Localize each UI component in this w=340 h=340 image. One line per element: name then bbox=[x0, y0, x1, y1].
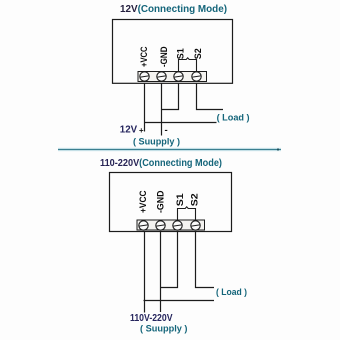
svg-text:+VCC: +VCC bbox=[138, 190, 148, 213]
svg-text:( Suupply ): ( Suupply ) bbox=[133, 136, 180, 146]
svg-text:12V: 12V bbox=[120, 125, 137, 136]
svg-text:-GND: -GND bbox=[156, 190, 166, 213]
svg-text:S1: S1 bbox=[176, 48, 186, 59]
svg-text:S1: S1 bbox=[175, 193, 185, 206]
svg-text:-GND: -GND bbox=[159, 46, 169, 67]
svg-text:12V(Connecting Mode): 12V(Connecting Mode) bbox=[120, 4, 227, 15]
svg-text:+: + bbox=[139, 126, 144, 135]
svg-text:( Suupply ): ( Suupply ) bbox=[140, 323, 188, 333]
svg-text:S2: S2 bbox=[193, 48, 203, 59]
svg-text:( Load ): ( Load ) bbox=[216, 287, 247, 297]
svg-text:-: - bbox=[165, 125, 168, 136]
svg-text:+VCC: +VCC bbox=[139, 46, 149, 67]
svg-text:110-220V(Connecting Mode): 110-220V(Connecting Mode) bbox=[100, 158, 222, 169]
svg-text:( Load ): ( Load ) bbox=[217, 112, 250, 122]
svg-text:S2: S2 bbox=[190, 193, 200, 206]
